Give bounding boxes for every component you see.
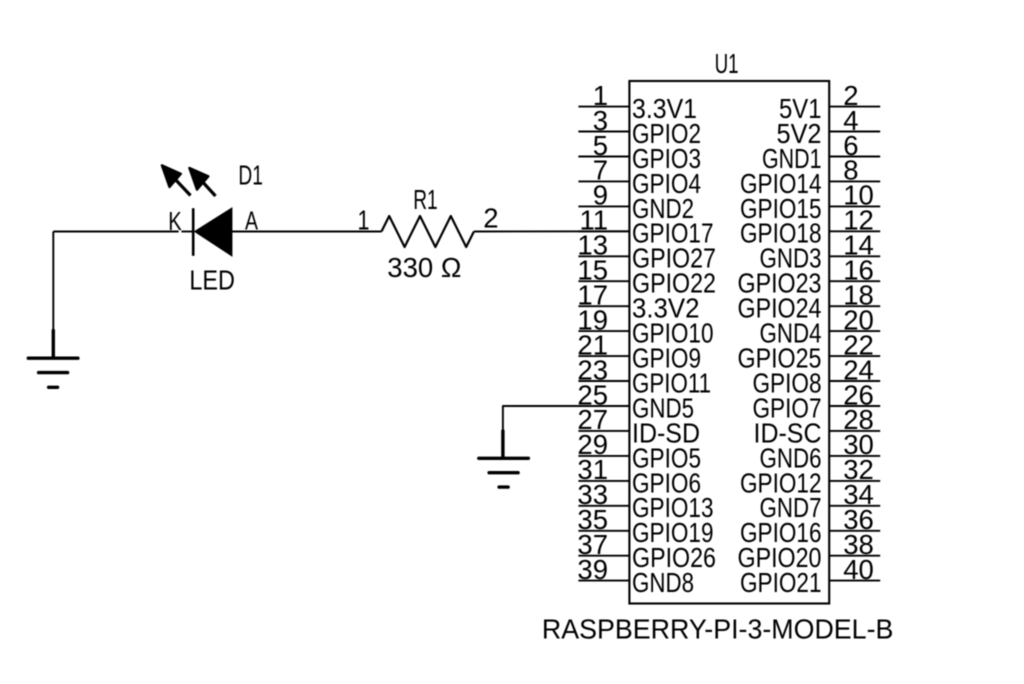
IC U1 pin 10 (GPIO15) [740, 180, 880, 224]
ground symbol (left, GND) [28, 331, 78, 388]
IC U1 pin 25 (GND5) [577, 379, 694, 423]
svg-text:RASPBERRY-PI-3-MODEL-B: RASPBERRY-PI-3-MODEL-B [542, 613, 894, 644]
IC U1 pin 28 (ID-SC) [754, 404, 881, 448]
IC U1 pin 17 (3.3V2) [577, 280, 699, 324]
IC U1 pin 5 (GPIO3) [578, 130, 701, 174]
IC U1 pin 37 (GPIO26) [577, 529, 716, 573]
IC U1 pin 33 (GPIO13) [577, 479, 713, 523]
IC U1 pin 29 (GPIO5) [577, 429, 701, 473]
IC U1 pin 12 (GPIO18) [740, 205, 880, 249]
svg-text:GND8: GND8 [632, 567, 694, 598]
svg-text:K: K [168, 208, 182, 236]
IC U1 pin 36 (GPIO16) [740, 504, 880, 548]
IC U1 pin 7 (GPIO4) [578, 155, 701, 199]
IC U1: body outline [629, 81, 829, 604]
IC U1 pin 19 (GPIO10) [577, 304, 713, 348]
IC U1 pin 27 (ID-SD) [577, 404, 700, 448]
wire: resistor R1 pin 2 to U1 pin 11 (GPIO17) [474, 230, 630, 232]
svg-text:39: 39 [577, 554, 608, 585]
IC U1 pin 35 (GPIO19) [577, 504, 713, 548]
IC U1 pin 14 (GND3) [760, 230, 881, 274]
IC U1 pin 20 (GND4) [760, 304, 881, 348]
svg-text:GPIO21: GPIO21 [740, 567, 822, 598]
svg-text:R1: R1 [413, 184, 438, 215]
wire GND net: vertical riser down to ground symbol [52, 232, 54, 332]
svg-text:1: 1 [358, 205, 370, 236]
IC U1 pin 40 (GPIO21) [740, 554, 880, 598]
IC U1 pin 6 (GND1) [762, 130, 880, 174]
IC U1 pin 8 (GPIO14) [740, 155, 880, 199]
IC U1 pin 24 (GPIO8) [753, 354, 881, 398]
LED D1: emission arrow 1 [162, 165, 191, 195]
IC U1 pin 4 (5V2) [777, 105, 881, 149]
svg-text:40: 40 [843, 554, 874, 585]
ground symbol (right, GND) [479, 431, 529, 487]
IC U1 pin 38 (GPIO20) [738, 529, 881, 573]
wire GND net: horizontal segment from ground riser to LED cathode [53, 231, 178, 233]
IC U1 pin 15 (GPIO22) [577, 255, 716, 299]
IC U1 pin 30 (GND6) [760, 429, 881, 473]
LED D1: emission arrow 2 [189, 168, 215, 196]
IC U1 pin 21 (GPIO9) [577, 329, 701, 373]
wire: LED anode to resistor R1 pin 1 [232, 231, 382, 233]
IC U1 pin 3 (GPIO2) [578, 105, 701, 149]
IC U1 pin 18 (GPIO24) [738, 280, 881, 324]
svg-text:D1: D1 [238, 159, 263, 190]
IC U1 pin 1 (3.3V1) [578, 80, 697, 124]
IC U1 pin 11 (GPIO17) [578, 205, 713, 249]
LED D1: triangle (anode side, pointing left) [195, 208, 233, 256]
IC U1 pin 22 (GPIO25) [738, 329, 881, 373]
IC U1 pin 39 (GND8) [577, 554, 694, 598]
svg-text:LED: LED [189, 265, 235, 296]
wire stub at LED cathode pin [181, 231, 193, 233]
IC U1 pin 13 (GPIO27) [577, 230, 716, 274]
IC U1 pin 34 (GND7) [760, 479, 881, 523]
LED D1: cathode bar [192, 208, 195, 256]
svg-text:2: 2 [483, 202, 498, 233]
IC U1 pin 16 (GPIO23) [738, 255, 881, 299]
IC U1 pin 9 (GND2) [578, 180, 694, 224]
wire: U1 pin 25 (GND5) to ground [503, 406, 630, 432]
IC U1 pin 32 (GPIO12) [740, 454, 880, 498]
IC U1 pin 23 (GPIO11) [577, 354, 711, 398]
svg-text:330 Ω: 330 Ω [387, 252, 461, 283]
IC U1 pin 26 (GPIO7) [753, 379, 881, 423]
svg-text:U1: U1 [715, 48, 739, 79]
resistor R1: zigzag body [382, 216, 474, 247]
IC U1 pin 2 (5V1) [779, 80, 880, 124]
IC U1 pin 31 (GPIO6) [577, 454, 701, 498]
